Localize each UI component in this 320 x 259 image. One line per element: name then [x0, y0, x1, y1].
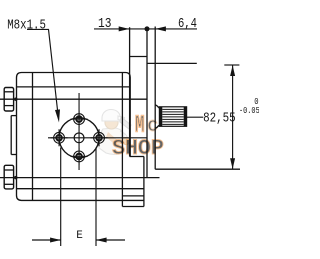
- svg-text:-0.05: -0.05: [239, 105, 259, 116]
- svg-text:82,55: 82,55: [203, 110, 236, 126]
- svg-text:13: 13: [98, 15, 111, 32]
- svg-text:M8x1.5: M8x1.5: [7, 17, 46, 33]
- svg-text:SHOP: SHOP: [112, 136, 164, 161]
- svg-text:E: E: [76, 230, 83, 242]
- svg-text:6,4: 6,4: [178, 16, 197, 32]
